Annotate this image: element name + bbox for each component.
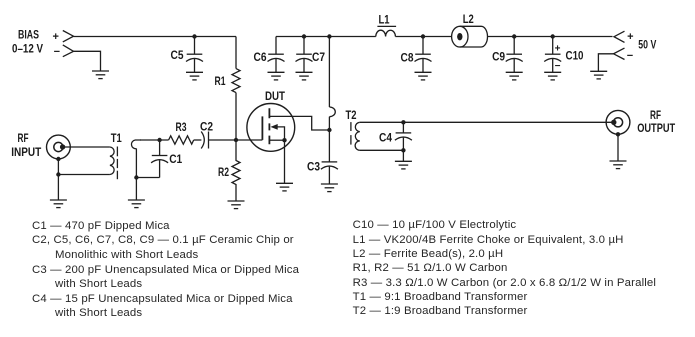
node source junction <box>282 138 286 142</box>
resistor R3 <box>169 136 194 144</box>
node output shield <box>616 132 620 136</box>
wire drain feed vertical <box>328 37 330 108</box>
wire source to ground <box>284 140 286 183</box>
legend right column <box>353 219 517 231</box>
wire bias- to ground <box>74 51 101 71</box>
svg-text:+: + <box>627 31 633 43</box>
svg-text:C3: C3 <box>307 160 320 174</box>
legend left column <box>32 220 170 232</box>
ground C6 <box>268 72 285 80</box>
ground C10 <box>544 72 561 80</box>
transformer T1 secondary turn <box>131 140 141 149</box>
inductor L1 <box>376 30 396 36</box>
capacitor C3 <box>321 130 338 184</box>
node C4 top junction <box>401 120 405 124</box>
svg-text:0–12 V: 0–12 V <box>12 41 43 55</box>
svg-text:50 V: 50 V <box>638 37 656 51</box>
wire T1 secondary top lead <box>140 139 169 141</box>
resistor R2 <box>232 140 240 201</box>
50V - terminal <box>614 48 625 59</box>
wire C4 ground stub <box>402 150 404 161</box>
ground C8 <box>415 72 432 80</box>
transformer T2 primary turn <box>329 107 335 117</box>
svg-text:BIAS: BIAS <box>18 27 39 41</box>
ground C7 <box>296 72 313 80</box>
wire T1 bottom to C1 <box>136 177 159 179</box>
svg-text:−: − <box>555 61 561 72</box>
transformer T2 core <box>350 122 352 145</box>
svg-text:L2: L2 <box>463 12 474 26</box>
svg-text:R3: R3 <box>176 120 187 134</box>
svg-text:OUTPUT: OUTPUT <box>637 121 676 135</box>
wire 50V minus to ground <box>598 54 613 72</box>
ground C3 <box>321 184 338 192</box>
svg-text:T1: T1 <box>111 131 122 145</box>
ground bias <box>92 71 109 79</box>
node input shield top <box>56 157 60 161</box>
transformer T1 primary <box>110 147 114 175</box>
svg-text:−: − <box>627 50 633 62</box>
node C10 junction <box>551 34 555 38</box>
svg-text:T2: T2 <box>346 108 357 122</box>
wire T2 secondary top lead <box>360 121 614 123</box>
capacitor C9 <box>506 37 523 73</box>
wire R3 to C2 <box>194 139 202 141</box>
resistor R1 <box>232 69 240 93</box>
capacitor C4 <box>395 122 412 150</box>
transformer T1 core <box>116 147 118 180</box>
connector RF output <box>606 110 630 134</box>
node C4 bottom junction <box>401 148 405 152</box>
svg-text:+: + <box>52 31 58 43</box>
svg-text:C4: C4 <box>379 130 392 144</box>
node C1 top junction <box>157 138 161 142</box>
svg-text:C6: C6 <box>254 50 267 64</box>
capacitor C5 <box>186 37 203 73</box>
svg-text:L1: L1 <box>379 12 390 26</box>
svg-text:RF: RF <box>650 108 661 122</box>
wire R1 bottom to gate node <box>235 93 237 140</box>
svg-text:C10: C10 <box>566 48 584 62</box>
wire bias+ rail <box>74 36 237 38</box>
transformer T2 secondary <box>355 122 360 150</box>
capacitor C2 <box>201 132 208 149</box>
node drain junction <box>327 128 331 132</box>
svg-text:C1: C1 <box>169 152 182 166</box>
capacitor C10 electrolytic <box>544 37 561 73</box>
ground C4 <box>395 161 412 169</box>
ground 50V <box>590 71 607 79</box>
wire input pin to T1 <box>64 146 110 148</box>
node C9 junction <box>512 34 516 38</box>
capacitor C7 <box>296 37 313 73</box>
wire 50V rail <box>276 36 613 38</box>
ground R2 <box>228 201 245 209</box>
wire C2 to gate <box>209 139 263 141</box>
svg-text:R1: R1 <box>215 74 226 88</box>
ground RF output <box>610 161 627 169</box>
wire T1 primary bottom lead <box>58 174 110 176</box>
capacitor C8 <box>415 37 432 73</box>
wire T1 bottom to ground <box>135 178 137 201</box>
svg-text:+: + <box>555 44 561 55</box>
capacitor C1 <box>151 140 168 178</box>
bias - terminal <box>63 45 74 57</box>
node drain feed junction <box>327 34 331 38</box>
svg-text:C2: C2 <box>200 119 213 133</box>
ground source <box>276 183 293 191</box>
wire R1 feed <box>235 37 237 69</box>
wire T2 secondary bottom lead <box>360 149 404 151</box>
svg-text:C5: C5 <box>171 48 184 62</box>
svg-text:RF: RF <box>18 131 29 145</box>
svg-text:INPUT: INPUT <box>11 145 42 159</box>
ferrite bead L2 <box>452 26 488 47</box>
wire T1 secondary down <box>135 149 137 178</box>
capacitor C6 <box>268 37 285 73</box>
svg-text:DUT: DUT <box>265 89 286 103</box>
wire drain feed lower <box>328 117 330 130</box>
svg-text:−: − <box>54 46 60 58</box>
node C7 junction <box>302 34 306 38</box>
ground C5 <box>186 72 203 80</box>
bias + terminal <box>63 31 74 42</box>
node input shield junction <box>56 172 60 176</box>
transistor DUT mosfet <box>247 104 295 152</box>
node C5/bias rail junction <box>192 34 196 38</box>
node T1 bottom junction <box>134 175 138 179</box>
wire output shield to ground <box>617 134 619 161</box>
ground C9 <box>506 72 523 80</box>
ground RF input <box>50 200 67 208</box>
node gate junction <box>234 138 238 142</box>
svg-text:C9: C9 <box>492 49 505 63</box>
node C8 junction <box>421 34 425 38</box>
svg-text:C7: C7 <box>312 50 325 64</box>
wire drain L <box>269 116 329 130</box>
connector RF input <box>47 135 71 159</box>
svg-text:R2: R2 <box>218 165 229 179</box>
50V + terminal <box>614 31 625 42</box>
svg-text:C8: C8 <box>401 50 414 64</box>
ground T1 <box>128 200 145 208</box>
label L1 underline <box>377 25 396 27</box>
wire input shield down <box>57 159 59 200</box>
